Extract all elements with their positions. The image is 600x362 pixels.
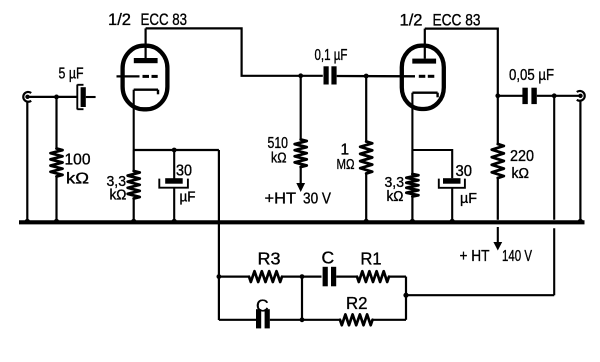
- node: 3,3k(1) on bus: [131, 219, 136, 224]
- wire: U1 anode rail to coupling node: [146, 28, 323, 75]
- svg-text:R2: R2: [346, 293, 368, 313]
- node: 30uF(1) on bus: [172, 219, 177, 224]
- wire: R1 to lattice right node: [389, 276, 406, 278]
- wire: 100k top lead: [55, 97, 57, 149]
- wire: 0,05uF to output terminal: [537, 95, 581, 97]
- label 3,3 kOhm (stage 2): [385, 174, 405, 205]
- svg-text:100: 100: [65, 152, 91, 169]
- svg-text:kΩ: kΩ: [66, 171, 89, 188]
- label C (upper): [322, 248, 335, 268]
- resistor R1: [357, 271, 389, 282]
- label 5 uF: [59, 66, 84, 83]
- label 0,05 uF: [509, 67, 554, 84]
- tube U1 grid (stub + dashes): [117, 75, 158, 77]
- label 510 kOhm: [268, 135, 289, 167]
- wire: input ground drop: [26, 102, 28, 221]
- node: 1M / grid junction: [364, 74, 369, 79]
- tube U1 anode plate: [134, 58, 158, 63]
- wire: U2 anode lead: [424, 29, 426, 59]
- wire: output tap vertical (crosses bus): [553, 96, 555, 295]
- wire: lattice top-left segment: [219, 276, 249, 278]
- capacitor C (upper): [323, 267, 337, 287]
- input terminal: [23, 92, 31, 102]
- capacitor 0,1uF: [324, 66, 337, 84]
- wire: C to R1: [336, 276, 357, 278]
- wire: 0,1uF to U2 grid: [337, 75, 415, 78]
- wire: R3 to middle node: [282, 276, 322, 278]
- wire: 1M bottom lead: [365, 174, 367, 221]
- node: cathode1 / 30uF junction: [172, 148, 177, 153]
- svg-text:5 µF: 5 µF: [59, 66, 84, 83]
- node: anode/220k/output junction: [495, 93, 500, 98]
- wire: 1M top lead: [365, 76, 367, 142]
- svg-text:kΩ: kΩ: [271, 150, 287, 167]
- tube U1 cathode: [134, 90, 158, 150]
- wire: lattice right vertical: [405, 277, 407, 320]
- svg-text:0,1 µF: 0,1 µF: [315, 47, 348, 64]
- tube U2 cathode: [412, 93, 437, 150]
- wire: 510k lead to HT arrow: [300, 167, 302, 184]
- label 0,1 uF: [315, 47, 348, 64]
- capacitor C (lower): [256, 309, 270, 328]
- wire: 220k lead to bus crossing: [497, 178, 499, 220]
- output terminal: [577, 91, 585, 101]
- label 30 uF (stage 2): [456, 163, 478, 207]
- wire: R2 to lattice right node: [373, 319, 407, 321]
- capacitor 0,05uF: [522, 88, 536, 104]
- svg-text:+HT: +HT: [265, 191, 297, 208]
- svg-text:0,05 µF: 0,05 µF: [509, 67, 554, 84]
- resistor 220k: [492, 144, 504, 178]
- svg-text:C: C: [256, 296, 269, 316]
- wire: output ground drop: [579, 101, 581, 220]
- label +HT 140V: [460, 248, 533, 265]
- resistor 3,3k (stage 2): [406, 150, 418, 220]
- capacitor 30uF (stage 1, electrolytic): [159, 150, 188, 220]
- label 1/2 ECC 83 (U1): [108, 10, 187, 29]
- svg-text:C: C: [322, 248, 335, 268]
- resistor 1M: [360, 142, 372, 174]
- svg-text:R1: R1: [361, 249, 382, 269]
- wire: U2 cathode to 30uF: [412, 150, 452, 178]
- svg-text:1/2: 1/2: [400, 11, 423, 30]
- svg-text:30 V: 30 V: [303, 191, 331, 208]
- wire: input lead to 5uF: [28, 96, 78, 98]
- wire: C to middle bottom node: [270, 319, 340, 321]
- node: lattice middle top: [300, 274, 305, 279]
- node: lattice middle bottom: [300, 317, 305, 322]
- svg-text:30: 30: [176, 163, 192, 180]
- arrow to +HT 140V: [493, 227, 502, 251]
- label R2: [346, 293, 368, 313]
- node: feedback output tap: [403, 293, 408, 298]
- node: 30uF(2) on bus: [450, 219, 455, 224]
- wire: 510k top lead: [300, 76, 302, 140]
- label C (lower): [256, 296, 269, 316]
- wire: feedback drop from cathode1: [218, 150, 220, 320]
- node: input gnd on bus: [25, 219, 30, 224]
- label 220 kOhm: [510, 148, 534, 182]
- wire: junction to 0,05uF: [498, 95, 523, 97]
- tube U2 1/2 ECC83 envelope: [402, 46, 444, 109]
- svg-text:ECC 83: ECC 83: [141, 10, 188, 29]
- svg-text:220: 220: [510, 148, 534, 165]
- node: 100k on bus: [54, 219, 59, 224]
- wire: U1 cathode bus: [134, 149, 219, 151]
- svg-text:+ HT: + HT: [460, 248, 490, 265]
- capacitor 30uF (stage 2, electrolytic): [439, 178, 465, 220]
- svg-text:1/2: 1/2: [108, 10, 131, 29]
- wire: 100k bottom lead: [55, 177, 57, 221]
- label 100 kOhm: [65, 152, 91, 188]
- wire: U1 anode lead: [145, 28, 147, 58]
- node: lattice left node: [217, 274, 222, 279]
- svg-text:R3: R3: [258, 249, 281, 269]
- capacitor 5uF (electrolytic): [77, 85, 95, 110]
- svg-text:140 V: 140 V: [502, 248, 532, 265]
- ground bus: [19, 220, 585, 224]
- svg-text:30: 30: [456, 163, 473, 180]
- wire: U2 anode rail to output node: [425, 29, 498, 96]
- node: feedback tap junction: [552, 93, 557, 98]
- resistor 100k: [51, 149, 63, 177]
- svg-text:µF: µF: [460, 190, 477, 207]
- label 30 uF (stage 1): [176, 163, 196, 206]
- tube U1 1/2 ECC83 envelope: [123, 46, 168, 110]
- svg-text:ECC 83: ECC 83: [433, 11, 481, 30]
- node: input/100k junction: [54, 95, 59, 100]
- svg-text:MΩ: MΩ: [337, 156, 355, 173]
- node: output gnd on bus: [578, 219, 583, 224]
- node: 510k / anode junction: [298, 73, 303, 78]
- label 3,3 kOhm (stage 1): [107, 173, 127, 204]
- label +HT 30V: [265, 191, 332, 208]
- wire: 220k top lead: [497, 96, 499, 144]
- svg-text:kΩ: kΩ: [110, 188, 127, 204]
- label R1: [361, 249, 382, 269]
- resistor R3: [249, 271, 282, 282]
- wire: feedback tap to output column: [406, 294, 554, 296]
- resistor 3,3k (stage 1): [128, 150, 140, 220]
- node: 1M on bus: [364, 219, 369, 224]
- tube U2 anode plate: [412, 59, 436, 64]
- svg-text:kΩ: kΩ: [387, 189, 404, 205]
- wire: lattice bottom-left segment: [219, 319, 256, 321]
- arrow to +HT 30V: [296, 183, 305, 192]
- resistor R2: [340, 314, 373, 325]
- node: 3,3k(2) on bus: [410, 219, 415, 224]
- resistor 510k: [295, 140, 307, 168]
- svg-text:µF: µF: [180, 189, 196, 206]
- label 1 MOhm: [337, 142, 355, 174]
- label R3: [258, 249, 281, 269]
- wire: lattice middle vertical: [301, 277, 303, 320]
- svg-text:kΩ: kΩ: [512, 165, 530, 182]
- label 1/2 ECC 83 (U2): [400, 11, 481, 30]
- tube U2 grid dashes: [419, 75, 435, 78]
